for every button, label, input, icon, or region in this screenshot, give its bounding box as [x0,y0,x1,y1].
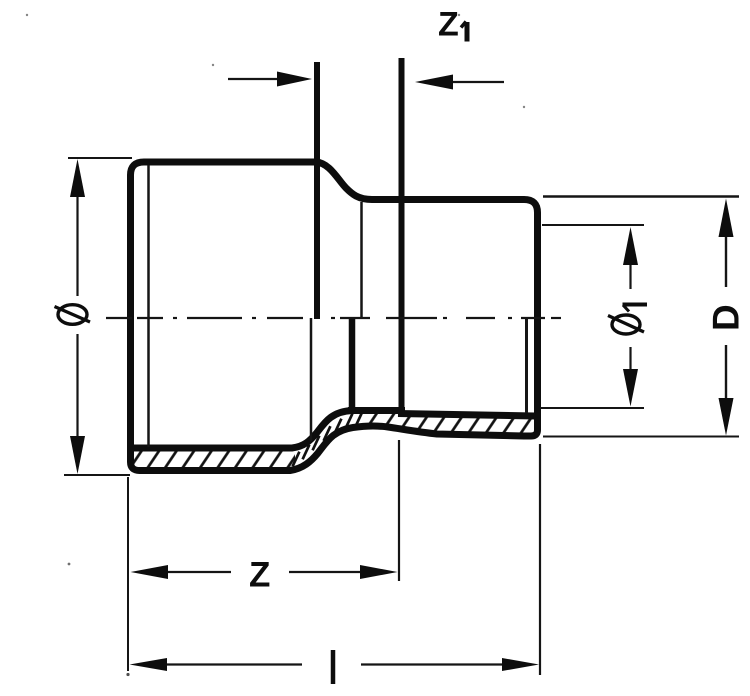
socket mouth line left [147,165,150,447]
dim l: line + arrows [166,663,302,665]
dim Ø1: arrowheads [623,227,638,265]
hatched wall band: large section [131,448,295,471]
internal shoulder [348,407,405,414]
label Ø1 (rotated) [612,315,640,334]
hatched wall band: small section [364,411,536,437]
dim Ø: top extension [68,157,132,159]
label l [331,650,336,684]
dim Z1: right arrow [453,81,504,83]
dim Ø: arrowheads [70,159,85,197]
hatch bars in transition [293,412,363,467]
dim D: bottom extension [543,436,739,438]
dim Z1: left arrow [228,78,279,80]
svg-text:Z: Z [438,6,459,44]
dim D: arrowheads [719,199,734,238]
center line [106,317,561,319]
left extension line for Z and l [127,477,129,671]
right socket mouth line [525,318,528,413]
wall inner edge (small section) [398,414,535,417]
socket depth line / Z1 left extension [314,62,320,319]
dim Ø1: top extension [542,224,644,226]
dim Z: line + arrows [168,571,231,573]
dim D: top extension [543,195,739,197]
dim D: line segments [725,237,727,287]
dim Ø1: line segments [629,265,631,289]
body outer contour [131,162,538,471]
label Ø (rotated) [58,305,87,325]
dim Ø: line segments [76,197,78,296]
Z1 right extension / small socket depth line [399,58,405,413]
right extension for Z [398,440,400,581]
thick internal line below center [349,318,356,410]
wall inner edge (large section + transition) [132,411,404,449]
thin internal line below center [310,318,313,441]
dim Ø: bottom extension [64,474,130,476]
right extension for l [539,444,541,675]
thin internal line above center [360,202,363,319]
svg-text:D: D [706,304,747,331]
dim Ø1: bottom extension [540,407,644,409]
scan specks [68,563,71,566]
svg-text:Z: Z [249,556,270,595]
